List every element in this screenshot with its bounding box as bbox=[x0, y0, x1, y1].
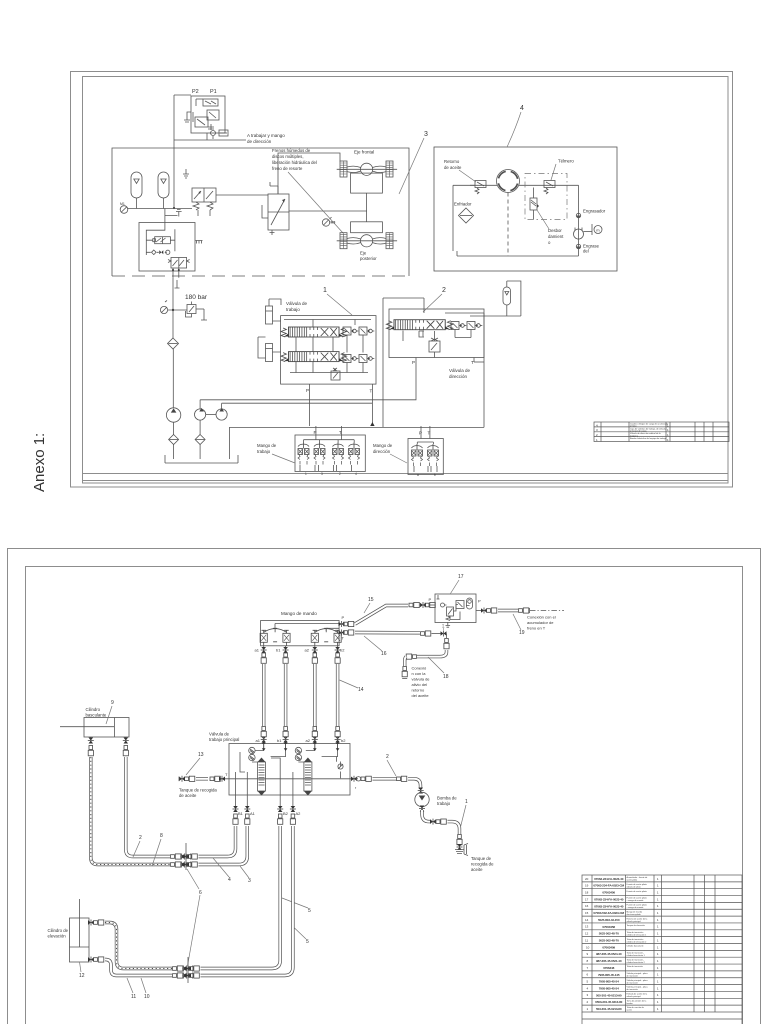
svg-text:1: 1 bbox=[657, 877, 659, 881]
svg-text:07063-234-FA-0023-40: 07063-234-FA-0023-40 bbox=[594, 904, 624, 908]
svg-text:0706348: 0706348 bbox=[603, 966, 614, 970]
svg-text:9: 9 bbox=[587, 952, 589, 956]
page 2 outer border bbox=[8, 549, 761, 1024]
svg-text:07063456: 07063456 bbox=[602, 891, 615, 895]
spool unit 1 bbox=[249, 747, 266, 795]
svg-text:válvula de: válvula de bbox=[412, 677, 431, 682]
svg-text:discos múltiples,: discos múltiples, bbox=[272, 154, 304, 159]
svg-text:4: 4 bbox=[587, 986, 589, 990]
control handle box: Mango de mando bbox=[261, 611, 340, 646]
svg-text:Válvula de: Válvula de bbox=[209, 732, 230, 737]
svg-text:P: P bbox=[412, 360, 415, 365]
tank line box4 bbox=[457, 251, 579, 256]
svg-text:9: 9 bbox=[111, 700, 114, 706]
wire: accumulator bus bbox=[128, 208, 193, 210]
dashed fan drive line bbox=[507, 193, 509, 257]
svg-text:1: 1 bbox=[657, 925, 659, 929]
tank bbox=[165, 455, 238, 463]
port stems block1 bbox=[309, 384, 311, 426]
svg-text:- mango de mando: - mango de mando bbox=[627, 900, 645, 902]
internal pilot wires bbox=[275, 624, 339, 632]
svg-text:2: 2 bbox=[386, 754, 389, 760]
svg-text:10: 10 bbox=[144, 994, 150, 1000]
wire gauge to relief bbox=[168, 309, 187, 311]
svg-text:6: 6 bbox=[199, 890, 202, 896]
svg-text:14: 14 bbox=[358, 687, 364, 693]
hose to brake accumulator bbox=[476, 608, 564, 614]
svg-text:7: 7 bbox=[587, 966, 589, 970]
svg-text:Tubo de transición: Tubo de transición bbox=[627, 965, 643, 968]
bottom port B2 bbox=[277, 795, 288, 824]
svg-text:b1: b1 bbox=[276, 648, 281, 653]
parts list part numbers bbox=[593, 877, 624, 1011]
wire: pump2 to steer valve P bbox=[200, 358, 416, 400]
svg-text:1: 1 bbox=[465, 799, 468, 805]
tilt cylinder bbox=[60, 707, 129, 737]
svg-text:Bomba de: Bomba de bbox=[437, 796, 457, 801]
wire: long supply line from pilot block to pump 1 bbox=[174, 94, 191, 96]
svg-text:Válvula de: Válvula de bbox=[449, 368, 471, 373]
tilt hose right (to B1) bbox=[123, 737, 236, 860]
check valve diamond on supply bbox=[168, 338, 179, 349]
svg-text:P1: P1 bbox=[210, 89, 217, 95]
svg-text:07063409: 07063409 bbox=[602, 945, 615, 949]
handle unit: mango de direccion bbox=[408, 426, 443, 475]
svg-text:de transición: de transición bbox=[627, 981, 638, 984]
svg-text:r: r bbox=[355, 786, 357, 790]
svg-text:1: 1 bbox=[657, 966, 659, 970]
svg-text:1: 1 bbox=[657, 938, 659, 942]
driveline bbox=[366, 193, 368, 222]
svg-text:de transición: de transición bbox=[627, 988, 638, 991]
cooling circuit box 4 bbox=[434, 147, 617, 271]
svg-text:b2: b2 bbox=[340, 648, 345, 653]
svg-text:20: 20 bbox=[585, 877, 589, 881]
joysticks work handle bbox=[298, 443, 309, 465]
svg-text:recogida de: recogida de bbox=[471, 862, 494, 867]
svg-text:Válvula de: Válvula de bbox=[286, 301, 308, 306]
svg-text:alivio del: alivio del bbox=[412, 682, 428, 687]
svg-text:b2: b2 bbox=[341, 738, 346, 743]
svg-text:12: 12 bbox=[585, 932, 589, 936]
tilt hose left (to A1) bbox=[88, 737, 248, 868]
svg-text:a1: a1 bbox=[255, 648, 260, 653]
svg-text:a2: a2 bbox=[306, 738, 311, 743]
pump 1 bbox=[166, 349, 180, 422]
svg-text:aceite: aceite bbox=[471, 867, 483, 872]
svg-text:Eje frontal: Eje frontal bbox=[354, 150, 374, 155]
svg-text:válvula de alivio: válvula de alivio bbox=[627, 887, 642, 889]
svg-text:m: m bbox=[596, 228, 600, 233]
lift hose upper (to B2) bbox=[88, 826, 280, 972]
svg-text:1: 1 bbox=[657, 884, 659, 888]
svg-text:de transición: de transición bbox=[627, 974, 638, 977]
hose 16 bbox=[355, 626, 447, 637]
svg-text:T: T bbox=[442, 626, 445, 631]
svg-text:Tanque de elevación: Tanque de elevación bbox=[627, 925, 645, 927]
svg-text:trabajo: trabajo bbox=[437, 801, 451, 806]
svg-text:trabajo principal: trabajo principal bbox=[209, 737, 239, 742]
svg-text:Conexió: Conexió bbox=[412, 666, 427, 671]
left port fitting bbox=[179, 776, 225, 782]
svg-text:1: 1 bbox=[657, 932, 659, 936]
svg-text:6: 6 bbox=[587, 973, 589, 977]
svg-text:de dirección: de dirección bbox=[247, 139, 272, 144]
vent symbol bbox=[183, 169, 189, 178]
svg-text:Engrasador: Engrasador bbox=[583, 209, 606, 214]
svg-text:1: 1 bbox=[657, 891, 659, 895]
svg-text:principal de carga: principal de carga bbox=[630, 430, 647, 433]
accumulator A bbox=[131, 172, 142, 209]
svg-text:Télmero: Télmero bbox=[558, 159, 574, 164]
svg-text:14: 14 bbox=[585, 918, 589, 922]
svg-text:T: T bbox=[471, 360, 474, 365]
lift hose lower (to A2) bbox=[88, 826, 293, 979]
svg-text:4: 4 bbox=[520, 105, 524, 112]
brake system boundary box (dash bottom) bbox=[112, 148, 409, 276]
handle unit: mango de trabajo bbox=[295, 422, 375, 472]
svg-text:Bomba hidráulica del equipo de: Bomba hidráulica del equipo de trabajo bbox=[630, 437, 667, 440]
block relief bbox=[338, 762, 343, 779]
svg-text:P: P bbox=[306, 388, 309, 393]
svg-text:3: 3 bbox=[321, 472, 323, 476]
relief valve 180bar bbox=[186, 302, 208, 321]
svg-text:4: 4 bbox=[228, 877, 231, 883]
suction filter 2 bbox=[195, 420, 205, 459]
svg-text:987-305-45-0524-40: 987-305-45-0524-40 bbox=[596, 952, 622, 956]
svg-text:1: 1 bbox=[657, 959, 659, 963]
svg-text:acumulador de: acumulador de bbox=[527, 620, 554, 625]
svg-text:1: 1 bbox=[323, 287, 327, 294]
top port arrows bbox=[262, 741, 266, 751]
svg-text:Eje: Eje bbox=[360, 251, 367, 256]
svg-text:5025-502-48-70: 5025-502-48-70 bbox=[599, 932, 619, 936]
fan circle bbox=[497, 170, 520, 193]
quick coupling lower bbox=[183, 957, 194, 983]
svg-text:5: 5 bbox=[306, 939, 309, 945]
svg-text:válvula principal: válvula principal bbox=[627, 996, 642, 998]
svg-text:0503-301-45-0213-80: 0503-301-45-0213-80 bbox=[595, 1000, 623, 1004]
svg-text:T: T bbox=[225, 772, 228, 777]
wire: riser to accumulator line bbox=[483, 313, 485, 427]
svg-text:Tanque de: Tanque de bbox=[471, 856, 492, 861]
steering relief bbox=[429, 331, 440, 352]
gauge bbox=[160, 301, 167, 314]
gauge M1 bbox=[120, 202, 128, 213]
pump suction hose bbox=[419, 806, 468, 856]
bottom port A2 bbox=[290, 795, 301, 824]
svg-text:del aceite: del aceite bbox=[412, 693, 430, 698]
svg-text:1: 1 bbox=[657, 986, 659, 990]
lift cylinder bbox=[48, 899, 90, 962]
svg-text:5025-803-43-150: 5025-803-43-150 bbox=[598, 918, 620, 922]
svg-text:Anexo 1:: Anexo 1: bbox=[31, 433, 48, 492]
svg-text:cilindro de elevación 1: cilindro de elevación 1 bbox=[627, 934, 648, 936]
svg-text:P: P bbox=[478, 599, 481, 604]
internal wires block2 bbox=[403, 330, 471, 358]
internal wires block1 bbox=[296, 335, 363, 373]
greaser bottom bbox=[576, 244, 599, 254]
charge valve bbox=[192, 188, 268, 216]
wire: pilot output to label bbox=[206, 133, 208, 140]
svg-text:15: 15 bbox=[585, 911, 589, 915]
svg-text:8: 8 bbox=[160, 833, 163, 839]
svg-text:freno de resorte: freno de resorte bbox=[272, 166, 303, 171]
pilot cylinder 2 bbox=[258, 337, 281, 362]
grease pump circle bbox=[574, 228, 593, 240]
svg-text:Retorno: Retorno bbox=[444, 159, 460, 164]
svg-text:17: 17 bbox=[585, 897, 589, 901]
bottom port B1 bbox=[233, 795, 244, 824]
svg-text:B2: B2 bbox=[283, 811, 289, 816]
svg-text:07063458: 07063458 bbox=[602, 925, 615, 929]
svg-text:liberación hidráulica del: liberación hidráulica del bbox=[272, 160, 317, 165]
svg-text:A2: A2 bbox=[296, 811, 302, 816]
svg-text:07063-234-FA-0023-40: 07063-234-FA-0023-40 bbox=[594, 897, 624, 901]
page 2 inner border bbox=[26, 567, 743, 1024]
svg-text:A trabajar y mango: A trabajar y mango bbox=[247, 133, 285, 138]
svg-text:19: 19 bbox=[519, 630, 525, 636]
parts list table bbox=[582, 875, 742, 1024]
svg-text:10: 10 bbox=[586, 945, 590, 949]
svg-text:16: 16 bbox=[381, 651, 387, 657]
wire: pump3 to work valve T bbox=[222, 402, 373, 404]
svg-text:3: 3 bbox=[248, 878, 251, 884]
svg-text:Enfriador: Enfriador bbox=[454, 202, 472, 207]
cooler filter diamond bbox=[459, 208, 474, 223]
hose b1 bbox=[283, 646, 289, 744]
svg-text:electroacoplado: electroacoplado bbox=[627, 913, 642, 916]
svg-text:1: 1 bbox=[657, 980, 659, 984]
hose a1 bbox=[261, 646, 267, 744]
svg-text:a: a bbox=[417, 473, 419, 477]
svg-text:2: 2 bbox=[442, 287, 446, 294]
svg-text:trabajo: trabajo bbox=[257, 449, 271, 454]
svg-text:1: 1 bbox=[587, 1007, 589, 1011]
svg-text:1: 1 bbox=[305, 472, 307, 476]
svg-text:elevación: elevación bbox=[48, 934, 67, 939]
svg-text:8: 8 bbox=[587, 959, 589, 963]
parts list numbers bbox=[585, 877, 590, 1011]
svg-text:1: 1 bbox=[657, 911, 659, 915]
svg-text:7905-805-45-145: 7905-805-45-145 bbox=[598, 973, 620, 977]
wire: feed bus to handles bbox=[230, 427, 485, 459]
hose b2 bbox=[335, 646, 341, 744]
svg-text:bomba: bomba bbox=[627, 1003, 634, 1005]
svg-text:posterior: posterior bbox=[360, 256, 377, 261]
front axle bbox=[337, 150, 397, 194]
page 1 bottom frame line bbox=[82, 473, 728, 475]
svg-text:Cilindro de: Cilindro de bbox=[48, 928, 69, 933]
svg-text:cilindro basculante 1: cilindro basculante 1 bbox=[627, 954, 646, 957]
svg-text:1: 1 bbox=[657, 904, 659, 908]
svg-text:Cilindro: Cilindro bbox=[86, 707, 101, 712]
svg-text:cilindro de elevación 2: cilindro de elevación 2 bbox=[627, 941, 648, 943]
brake foot valve bbox=[262, 182, 289, 235]
work pump bbox=[415, 792, 457, 806]
svg-text:19: 19 bbox=[585, 884, 589, 888]
svg-text:16: 16 bbox=[585, 904, 589, 908]
svg-text:3: 3 bbox=[587, 993, 589, 997]
spool 1B bbox=[281, 352, 347, 362]
page 1 outer border bbox=[71, 72, 733, 488]
svg-text:dirección: dirección bbox=[449, 374, 468, 379]
svg-text:b: b bbox=[434, 473, 436, 477]
svg-text:5: 5 bbox=[587, 980, 589, 984]
thermostat valve bbox=[544, 181, 555, 195]
svg-text:M1: M1 bbox=[120, 202, 125, 206]
svg-text:Fuente de aceite piloto: Fuente de aceite piloto bbox=[627, 890, 648, 893]
svg-text:7905-805-45-54: 7905-805-45-54 bbox=[599, 980, 619, 984]
svg-text:503-301-45-0213-80: 503-301-45-0213-80 bbox=[596, 1007, 622, 1011]
svg-text:Desbor: Desbor bbox=[548, 228, 562, 233]
svg-text:damient: damient bbox=[548, 234, 564, 239]
svg-text:505-301-45-0213-90: 505-301-45-0213-90 bbox=[596, 993, 622, 997]
hose 2 to pump bbox=[351, 776, 424, 794]
main work valve block bbox=[209, 732, 358, 796]
svg-text:1: 1 bbox=[657, 1000, 659, 1004]
pilot cylinder 1 bbox=[266, 299, 282, 324]
suction filter 1 bbox=[169, 422, 179, 459]
joysticks steer handle bbox=[412, 444, 423, 466]
svg-text:07063-234-FA-0023-CM: 07063-234-FA-0023-CM bbox=[593, 884, 624, 888]
svg-text:B1: B1 bbox=[238, 811, 244, 816]
svg-text:18: 18 bbox=[585, 891, 589, 895]
check pair 1A bbox=[343, 327, 358, 335]
greaser top bbox=[576, 209, 605, 218]
svg-text:07063-502-FA-0023-CM: 07063-502-FA-0023-CM bbox=[593, 911, 624, 915]
svg-text:trabajo: trabajo bbox=[286, 307, 300, 312]
svg-text:4: 4 bbox=[355, 472, 357, 476]
svg-text:1: 1 bbox=[657, 918, 659, 922]
svg-text:Mango de: Mango de bbox=[257, 443, 277, 448]
work valve block 1 bbox=[281, 301, 376, 384]
svg-text:7905-805-45-54: 7905-805-45-54 bbox=[599, 987, 619, 991]
bypass valve in dash box bbox=[530, 188, 539, 220]
svg-text:11: 11 bbox=[585, 938, 588, 942]
block internal wires bbox=[236, 744, 338, 796]
svg-text:5: 5 bbox=[308, 908, 311, 914]
svg-text:de aceite: de aceite bbox=[179, 793, 197, 798]
svg-text:1: 1 bbox=[657, 897, 659, 901]
svg-text:987-305-45-0521-40: 987-305-45-0521-40 bbox=[596, 959, 622, 963]
svg-text:13: 13 bbox=[198, 752, 204, 758]
svg-text:11: 11 bbox=[131, 994, 136, 1000]
svg-text:basculante: basculante bbox=[86, 713, 107, 718]
solenoid valve box bbox=[139, 209, 203, 278]
spool unit 2 bbox=[295, 747, 312, 795]
thermo bypass dash-dot box bbox=[525, 174, 567, 220]
svg-text:válvula principal: válvula principal bbox=[627, 921, 642, 923]
svg-text:Tanque de recogida: Tanque de recogida bbox=[179, 788, 217, 793]
svg-text:aceite: aceite bbox=[627, 1009, 633, 1012]
return check valve bbox=[470, 181, 486, 195]
wire: supply to front axle bbox=[278, 153, 340, 194]
svg-text:P: P bbox=[419, 431, 422, 436]
svg-text:aceite piloto: aceite piloto bbox=[627, 879, 639, 882]
motor m bbox=[592, 224, 602, 235]
joystick L bbox=[260, 628, 290, 646]
check L block2 bbox=[419, 331, 424, 337]
accumulator B bbox=[158, 172, 169, 209]
svg-text:del: del bbox=[583, 249, 589, 254]
pump 2 bbox=[195, 400, 206, 420]
pump 3 bbox=[206, 403, 228, 420]
svg-text:retorno: retorno bbox=[412, 688, 425, 693]
svg-text:P: P bbox=[429, 597, 432, 602]
svg-text:3: 3 bbox=[424, 131, 428, 138]
brake valve block 17 bbox=[429, 594, 482, 628]
spool 2A bbox=[386, 320, 452, 330]
svg-text:13: 13 bbox=[585, 925, 589, 929]
svg-text:- mango de mando: - mango de mando bbox=[627, 907, 645, 909]
spool 1A bbox=[281, 327, 347, 337]
return relief drop hose bbox=[402, 634, 449, 679]
svg-text:dirección: dirección bbox=[373, 449, 391, 454]
svg-text:y freno: y freno bbox=[630, 425, 637, 428]
svg-text:Mango de mando: Mango de mando bbox=[281, 611, 317, 616]
joystick R bbox=[311, 628, 341, 646]
gauge M3 bbox=[322, 217, 335, 226]
svg-text:15: 15 bbox=[368, 597, 374, 603]
check pair 1B bbox=[343, 355, 358, 363]
svg-text:5025-502-48-70: 5025-502-48-70 bbox=[599, 939, 619, 943]
parts list qty bbox=[657, 877, 659, 1011]
wire: cooler loop top bbox=[453, 184, 497, 186]
page 1 inner border bbox=[83, 77, 729, 484]
svg-text:1: 1 bbox=[657, 993, 659, 997]
svg-text:Mango de: Mango de bbox=[373, 443, 393, 448]
bottom port A1 bbox=[244, 795, 255, 824]
svg-text:b1: b1 bbox=[277, 738, 282, 743]
svg-text:n con la: n con la bbox=[412, 671, 427, 676]
check pair 2 bbox=[451, 322, 466, 330]
svg-text:a1: a1 bbox=[256, 738, 261, 743]
quick coupling upper bbox=[181, 843, 192, 870]
svg-text:2: 2 bbox=[587, 1000, 589, 1004]
svg-text:1: 1 bbox=[657, 952, 659, 956]
svg-text:A1: A1 bbox=[250, 811, 256, 816]
svg-text:de aceite: de aceite bbox=[444, 165, 462, 170]
svg-text:cilindro basculante 2: cilindro basculante 2 bbox=[627, 961, 646, 964]
accumulator steering bbox=[503, 287, 511, 305]
relief valve block1 bbox=[331, 368, 340, 380]
wire: right branch down bbox=[578, 185, 580, 251]
svg-text:2: 2 bbox=[139, 835, 142, 841]
svg-text:1: 1 bbox=[657, 973, 659, 977]
pilot valve block P2/P1 bbox=[184, 89, 228, 139]
svg-text:17: 17 bbox=[458, 574, 464, 580]
hose a2 bbox=[312, 646, 318, 744]
hose 15 to valve 17 bbox=[355, 602, 435, 624]
svg-text:Conexión con el: Conexión con el bbox=[527, 615, 556, 620]
svg-text:P2: P2 bbox=[192, 89, 199, 95]
svg-text:Frenos húmedos de: Frenos húmedos de bbox=[272, 148, 311, 153]
svg-text:T: T bbox=[342, 636, 345, 641]
steering valve block 2 bbox=[389, 309, 484, 379]
svg-text:12: 12 bbox=[79, 973, 85, 979]
drain tick bbox=[175, 280, 180, 288]
wire: brake valve to axles bbox=[289, 210, 367, 212]
svg-text:1: 1 bbox=[657, 945, 659, 949]
title block table bbox=[594, 422, 729, 442]
svg-text:07063-234-FA-0023-40: 07063-234-FA-0023-40 bbox=[594, 877, 624, 881]
svg-text:1: 1 bbox=[657, 1007, 659, 1011]
rear axle bbox=[337, 222, 397, 261]
svg-text:o: o bbox=[548, 240, 551, 245]
wires to accumulator bbox=[383, 281, 521, 427]
svg-text:P: P bbox=[342, 615, 345, 620]
